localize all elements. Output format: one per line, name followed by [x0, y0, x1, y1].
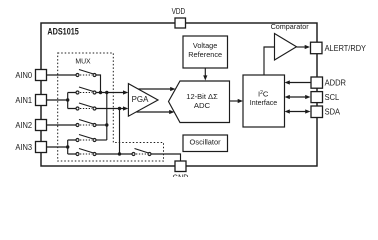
block Oscillator — [183, 135, 228, 152]
pin VDD — [175, 18, 186, 28]
wire PGA output lower to ADC — [137, 111, 170, 113]
svg-text:ADC: ADC — [194, 101, 211, 110]
svg-text:ALERT/RDY: ALERT/RDY — [325, 44, 367, 53]
chip boundary box ADS1015 — [41, 23, 317, 166]
pin ADDR — [311, 77, 346, 88]
svg-text:SDA: SDA — [325, 107, 341, 116]
op-amp comparator — [271, 22, 309, 60]
svg-text:Interface: Interface — [250, 98, 278, 107]
pin AIN1 — [15, 95, 46, 106]
MUX dashed boundary — [58, 53, 164, 161]
svg-text:Oscillator: Oscillator — [190, 138, 222, 147]
wire Voltage Reference to ADC — [204, 68, 206, 76]
wire comparator output to ALERT/RDY — [297, 46, 306, 48]
wire switch S5 output to branch vertical — [96, 139, 107, 141]
pin SCL — [311, 92, 340, 103]
switch S1 (AIN0) — [76, 70, 96, 77]
svg-text:Voltage: Voltage — [193, 41, 217, 50]
node AIN1 fork — [66, 98, 69, 101]
svg-text:GND: GND — [173, 173, 189, 177]
pin AIN2 — [15, 120, 46, 131]
svg-text:ADDR: ADDR — [325, 78, 347, 87]
wire I2C interface to comparator input — [264, 47, 275, 75]
block 12-Bit Delta-Sigma ADC — [169, 81, 230, 123]
node ground branch junction — [118, 152, 121, 155]
wire switch S1 output to bus P — [96, 75, 101, 93]
switch S3 (AIN1 to bus N) — [76, 103, 96, 110]
switch S6 (AIN3 lower) — [76, 149, 96, 156]
block I2C interface — [243, 75, 285, 127]
node bus N / ground-switch junction — [118, 107, 121, 110]
pin AIN0 — [15, 70, 46, 81]
op-amp PGA — [128, 84, 158, 117]
wire PGA output upper to ADC — [139, 88, 171, 90]
switch S7 (GND) — [132, 149, 151, 156]
svg-text:PGA: PGA — [132, 95, 150, 104]
svg-text:AIN3: AIN3 — [15, 143, 32, 152]
svg-text:Reference: Reference — [188, 50, 222, 59]
wire SDA to I2C interface — [289, 111, 307, 113]
switch S2 (AIN1 to bus P) — [76, 87, 96, 94]
node bus P / AIN2 branch junction — [105, 91, 108, 94]
wire ADC to I2C interface — [230, 100, 240, 102]
switch S4 (AIN2) — [76, 120, 96, 127]
wire switch S4 output to branch — [96, 124, 107, 126]
node bus P / AIN0 junction — [99, 91, 102, 94]
wire AIN3 fork bracket — [68, 140, 76, 154]
svg-text:MUX: MUX — [75, 57, 90, 66]
svg-text:ADS1015: ADS1015 — [47, 26, 78, 36]
pin ALERT/RDY — [311, 42, 367, 54]
switch S5 (AIN3 upper) — [76, 135, 96, 142]
wire ADDR to I2C interface — [289, 82, 311, 84]
pin GND — [173, 161, 189, 182]
wire AIN1 fork bracket — [68, 93, 76, 109]
svg-text:Comparator: Comparator — [271, 22, 309, 31]
wire bus N to PGA — [96, 108, 124, 110]
wire AIN0 to switch — [47, 74, 77, 76]
pin SDA — [311, 106, 341, 118]
node AIN3 fork — [66, 145, 69, 148]
wire switch S6 output to ground switch — [96, 153, 132, 155]
wire bus P to PGA — [96, 92, 124, 94]
svg-text:AIN2: AIN2 — [15, 121, 32, 130]
svg-text:AIN0: AIN0 — [15, 71, 32, 80]
svg-text:VDD: VDD — [172, 7, 186, 16]
wire AIN1 to fork — [47, 99, 68, 101]
block Voltage Reference — [183, 36, 228, 68]
pin AIN3 — [15, 142, 46, 153]
wire SCL to I2C interface — [289, 96, 307, 98]
wire AIN2 to switch — [47, 124, 77, 126]
svg-text:SCL: SCL — [325, 93, 340, 102]
svg-text:12-Bit ΔΣ: 12-Bit ΔΣ — [186, 92, 218, 101]
wire AIN3 to fork — [47, 146, 68, 148]
wire AIN2/AIN3 branch vertical to bus P — [106, 93, 108, 141]
wire ground switch to GND pin — [151, 154, 181, 161]
svg-text:AIN1: AIN1 — [15, 96, 32, 105]
wire ground branch vertical to bus N — [119, 109, 121, 155]
node AIN2 branch junction — [105, 123, 108, 126]
